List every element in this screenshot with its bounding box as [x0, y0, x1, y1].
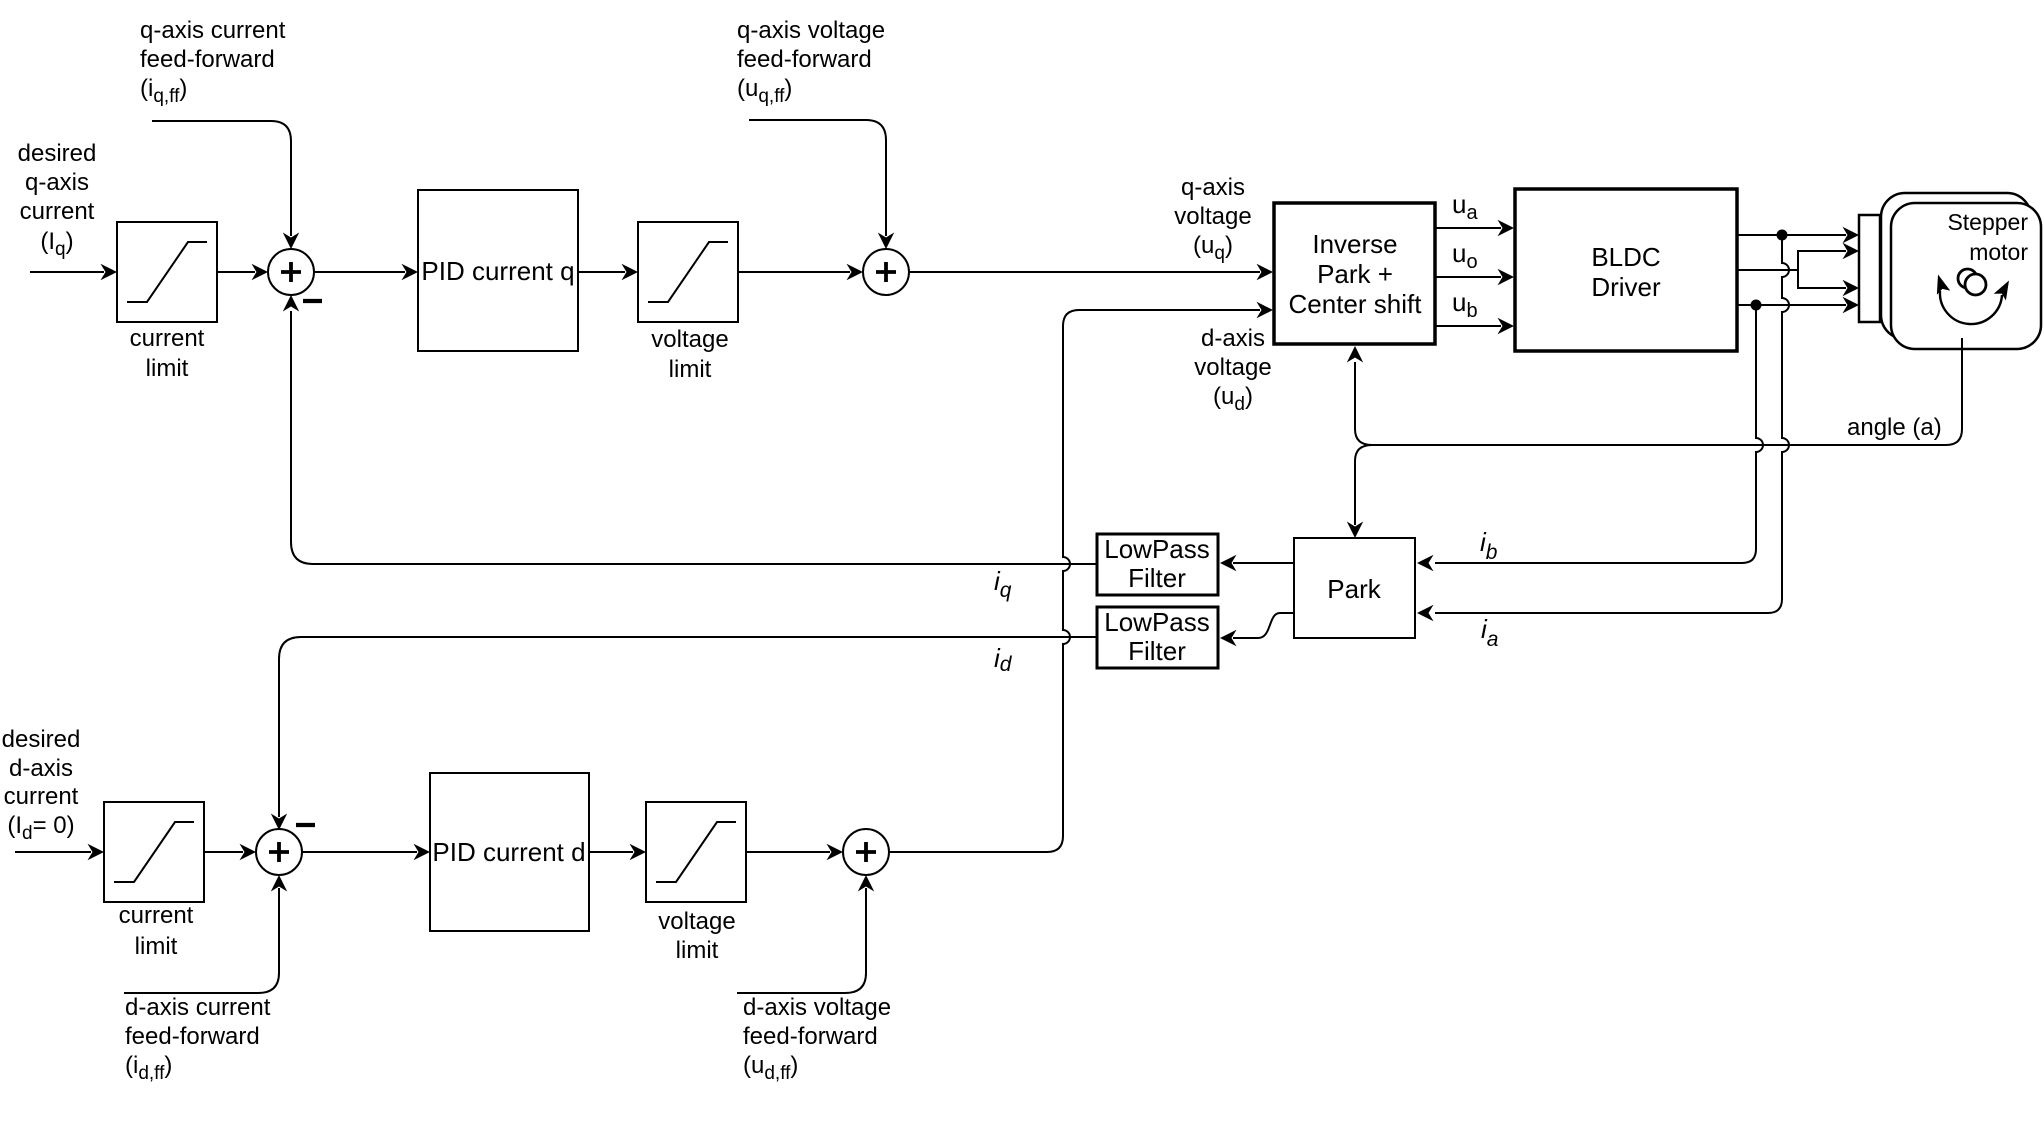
block: BLDC Driver	[1515, 189, 1737, 351]
wire: PID q to voltage limit q	[578, 264, 638, 280]
wire: ib sense down to Park	[1417, 305, 1763, 571]
wire: angle branch down into Park	[1347, 445, 1372, 538]
label: voltage limit (q)	[651, 326, 728, 383]
svg-text:feed-forward: feed-forward	[737, 46, 872, 73]
block: PID current q	[418, 190, 578, 351]
svg-text:current: current	[4, 783, 79, 810]
svg-text:d-axis voltage: d-axis voltage	[743, 994, 891, 1021]
block: Inverse Park + Center shift	[1274, 203, 1435, 344]
wire: sum1 to PID current q	[314, 264, 418, 280]
svg-text:BLDC: BLDC	[1591, 242, 1660, 272]
svg-text:(uq): (uq)	[1193, 232, 1233, 264]
label: PID current q	[421, 256, 574, 286]
wire: current limit q to sum1	[217, 264, 268, 280]
wire: angle branch up into Inverse Park	[1347, 346, 1372, 445]
wire: sum3 to PID current d	[302, 844, 430, 860]
label: ub	[1452, 287, 1478, 322]
svg-text:(iq,ff): (iq,ff)	[140, 75, 187, 107]
svg-text:voltage: voltage	[1174, 203, 1251, 230]
summing junction S2 (q voltage)	[863, 249, 909, 295]
block: voltage limit (d-axis)	[646, 802, 746, 902]
block: current limit (q-axis)	[117, 222, 217, 322]
svg-text:ia: ia	[1481, 614, 1498, 651]
label: d-axis voltage (ud)	[1194, 325, 1271, 415]
label: current limit (d)	[119, 902, 194, 960]
svg-text:q-axis: q-axis	[1181, 174, 1245, 201]
summing junction S1 (q current error)	[268, 249, 322, 301]
label: uo	[1452, 238, 1478, 273]
wire: voltage limit d to sum4	[746, 844, 843, 860]
label: ib	[1480, 527, 1498, 564]
block: voltage limit (q-axis)	[638, 222, 738, 322]
wire: PID d to voltage limit d	[589, 844, 646, 860]
label: voltage limit (d)	[658, 908, 735, 964]
svg-text:motor: motor	[1969, 239, 2028, 265]
summing junction S4 (d voltage)	[843, 829, 889, 875]
svg-text:Park: Park	[1327, 574, 1381, 604]
svg-text:(uq,ff): (uq,ff)	[737, 75, 792, 107]
svg-text:d-axis: d-axis	[1201, 325, 1265, 352]
label: q-axis voltage feed-forward (uq,ff)	[737, 17, 885, 107]
wire: d current feed-forward into sum3	[124, 875, 287, 993]
junction dot: phase A tap	[1777, 230, 1788, 241]
summing junction S3 (d current error)	[256, 825, 315, 875]
svg-text:Park +: Park +	[1317, 259, 1393, 289]
wire: Park iq output to LowPass Filter 1	[1220, 555, 1294, 571]
block: PID current d	[430, 773, 589, 931]
icon: motor shaft circle (back)	[1958, 269, 1977, 288]
svg-text:q-axis: q-axis	[25, 169, 89, 196]
block: stepper motor connector	[1859, 215, 1880, 322]
svg-text:Center shift: Center shift	[1289, 289, 1423, 319]
label: current limit (q)	[130, 325, 205, 382]
wire: d voltage feed-forward into sum4	[737, 875, 874, 993]
svg-text:current: current	[119, 902, 194, 929]
svg-text:PID current d: PID current d	[432, 837, 585, 867]
svg-text:Stepper: Stepper	[1947, 209, 2028, 235]
svg-text:(id,ff): (id,ff)	[125, 1052, 172, 1084]
label: desired d-axis current (Id=0)	[2, 726, 81, 844]
block: stepper motor body (back)	[1881, 193, 2031, 339]
svg-text:(Id= 0): (Id= 0)	[7, 812, 74, 844]
svg-text:feed-forward: feed-forward	[743, 1023, 878, 1050]
wire: angle from motor shaft	[1372, 338, 1962, 445]
wire: desired q current input	[30, 264, 117, 280]
svg-text:(ud,ff): (ud,ff)	[743, 1052, 798, 1084]
icon: motor shaft circle (front)	[1965, 274, 1986, 295]
svg-text:angle (a): angle (a)	[1847, 414, 1942, 441]
svg-text:ua: ua	[1452, 189, 1478, 224]
svg-text:q-axis current: q-axis current	[140, 17, 286, 44]
wire: desired d current input	[15, 844, 104, 860]
svg-text:PID current q: PID current q	[421, 256, 574, 286]
wire: ia sense down to Park	[1417, 235, 1789, 621]
svg-text:voltage: voltage	[651, 326, 728, 353]
svg-text:(ud): (ud)	[1213, 383, 1253, 415]
label: BLDC Driver	[1591, 242, 1661, 302]
block: LowPass Filter 2	[1097, 607, 1218, 668]
svg-text:q-axis voltage: q-axis voltage	[737, 17, 885, 44]
svg-text:d-axis current: d-axis current	[125, 994, 271, 1021]
svg-text:uo: uo	[1452, 238, 1478, 273]
svg-text:LowPass: LowPass	[1104, 534, 1210, 564]
wire: Park id output to LowPass Filter 2	[1220, 613, 1294, 646]
svg-text:ib: ib	[1480, 527, 1498, 564]
block: current limit (d-axis)	[104, 802, 204, 902]
block: stepper motor body (front)	[1891, 203, 2041, 349]
svg-text:desired: desired	[18, 140, 97, 167]
wire: BLDC center tap to motor pin2	[1737, 243, 1859, 270]
label: iq feedback	[994, 566, 1012, 602]
svg-text:ub: ub	[1452, 287, 1478, 322]
label: Park	[1327, 574, 1381, 604]
svg-text:limit: limit	[676, 937, 719, 964]
svg-text:d-axis: d-axis	[9, 755, 73, 782]
svg-text:desired: desired	[2, 726, 81, 753]
wire: BLDC center tap to motor pin3	[1798, 270, 1859, 296]
block: Park	[1294, 538, 1415, 638]
label: q-axis voltage (uq)	[1174, 174, 1251, 264]
wire: current limit d to sum3	[204, 844, 256, 860]
wire: BLDC phase A to motor pin1	[1737, 227, 1859, 243]
svg-text:voltage: voltage	[658, 908, 735, 935]
label: LowPass Filter 1	[1104, 534, 1210, 593]
label: id feedback	[994, 643, 1013, 676]
label: LowPass Filter 2	[1104, 607, 1210, 666]
label: ia	[1481, 614, 1498, 651]
wire: uo to BLDC Driver	[1435, 269, 1514, 285]
junction dot: phase B tap	[1751, 300, 1762, 311]
svg-text:current: current	[130, 325, 205, 352]
svg-text:feed-forward: feed-forward	[140, 46, 275, 73]
svg-text:limit: limit	[669, 356, 712, 383]
svg-text:LowPass: LowPass	[1104, 607, 1210, 637]
wire: BLDC phase B to motor pin4	[1737, 297, 1859, 313]
svg-text:(Iq): (Iq)	[40, 228, 73, 260]
block: LowPass Filter 1	[1097, 534, 1218, 595]
wire: sum2 to Inverse Park (uq)	[909, 264, 1273, 280]
label: angle (a)	[1847, 414, 1942, 441]
wire: q voltage feed-forward into sum2	[749, 120, 894, 249]
svg-text:feed-forward: feed-forward	[125, 1023, 260, 1050]
wire: ua to BLDC Driver	[1435, 220, 1514, 236]
wire: sum4 output ud up into Inverse Park	[889, 302, 1273, 852]
svg-text:limit: limit	[146, 355, 189, 382]
wire: id feedback to sum3 (minus)	[271, 637, 1097, 830]
label: ua	[1452, 189, 1478, 224]
wire: iq feedback to sum1 (minus)	[283, 295, 1097, 564]
svg-text:voltage: voltage	[1194, 354, 1271, 381]
wire: voltage limit q to sum2	[738, 264, 863, 280]
label: desired q-axis current (Iq)	[18, 140, 97, 260]
svg-text:limit: limit	[135, 933, 178, 960]
icon: motor rotation arc	[1931, 272, 2015, 324]
wire: q current feed-forward into sum1	[152, 121, 299, 249]
label: q-axis current feed-forward (iq,ff)	[140, 17, 286, 107]
label: d-axis voltage feed-forward (ud,ff)	[743, 994, 891, 1084]
svg-text:Inverse: Inverse	[1312, 229, 1397, 259]
svg-text:Filter: Filter	[1128, 563, 1186, 593]
svg-text:id: id	[994, 643, 1013, 676]
svg-text:current: current	[20, 198, 95, 225]
label: Inverse Park + Center shift	[1289, 229, 1423, 319]
label: d-axis current feed-forward (id,ff)	[125, 994, 271, 1084]
svg-text:Filter: Filter	[1128, 636, 1186, 666]
wire: ub to BLDC Driver	[1435, 318, 1514, 334]
label: PID current d	[432, 837, 585, 867]
label: Stepper motor	[1947, 209, 2028, 265]
svg-text:iq: iq	[994, 566, 1012, 602]
svg-text:Driver: Driver	[1591, 272, 1661, 302]
